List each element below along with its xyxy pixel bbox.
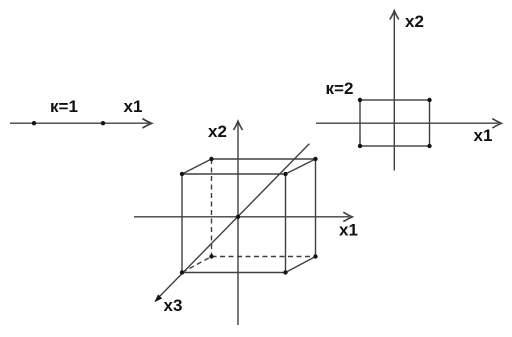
wire x2 axis vertical (cube): [237, 124, 239, 326]
svg-text:x1: x1: [339, 221, 358, 240]
edge top-left depth A-E: [182, 159, 212, 174]
wire x3 axis diagonal (cube): [158, 144, 309, 298]
k=3 cube plot: [134, 121, 352, 325]
node cube corner G back-bottom-left: [209, 254, 213, 258]
edge front-bottom C-D: [182, 272, 286, 274]
svg-text:x3: x3: [164, 296, 183, 315]
wire x1 axis horizontal (cube): [134, 216, 350, 218]
cube hidden edges dashed: [182, 159, 316, 273]
svg-text:x1: x1: [474, 126, 493, 145]
k=2 coordinate plot: [316, 11, 501, 171]
svg-text:x2: x2: [208, 122, 227, 141]
node cube corner F back-top-right: [313, 157, 317, 161]
x1 axis arrowhead (k=2): [492, 119, 501, 128]
edge top-right depth B-F: [286, 159, 316, 174]
svg-text:x2: x2: [405, 12, 424, 31]
node cube corner B front-top-right: [283, 172, 287, 176]
edge back-right F-H: [315, 159, 317, 257]
edge back-bottom G-H dashed: [212, 256, 316, 258]
edge back-top E-F: [212, 158, 316, 160]
node cube corner A front-top-left: [180, 172, 184, 176]
cube edges solid: [182, 159, 316, 273]
edge back-left E-G dashed: [211, 159, 213, 257]
node corner bottom-right (k=2 square): [427, 144, 431, 148]
node cube corner D front-bottom-right: [283, 270, 287, 274]
node cube corner E back-top-left: [209, 157, 213, 161]
edge front-top A-B: [182, 173, 286, 175]
x1 axis arrowhead (cube): [343, 212, 352, 221]
node cube corner C front-bottom-left: [180, 270, 184, 274]
square region k=2: [360, 100, 430, 146]
wire x1 axis horizontal (k=2): [316, 122, 499, 124]
edge bottom-right depth D-H: [286, 257, 316, 273]
node cube corner H back-bottom-right: [313, 254, 317, 258]
node corner bottom-left (k=2 square): [358, 144, 362, 148]
k1 axis arrowhead: [143, 119, 152, 128]
node corner top-left (k=2 square): [358, 98, 362, 102]
k=1 number line: [10, 119, 152, 128]
x3 axis arrowhead (filled): [154, 294, 162, 302]
node point at x=34 on k1 line: [32, 121, 36, 125]
node corner top-right (k=2 square): [427, 98, 431, 102]
wire k1 axis line: [10, 122, 149, 124]
svg-text:к=2: к=2: [326, 79, 354, 98]
node point at x=103 on k1 line: [101, 121, 105, 125]
edge bottom-left depth C-G dashed: [182, 257, 212, 273]
wire x2 axis vertical (k=2): [393, 13, 395, 171]
edge front-right B-D: [285, 174, 287, 273]
x2 axis arrowhead (cube): [234, 121, 243, 130]
node origin (cube axes): [236, 215, 240, 219]
x2 axis arrowhead (k=2): [390, 11, 399, 20]
svg-text:к=1: к=1: [50, 97, 78, 116]
edge front-left A-C: [181, 174, 183, 273]
svg-text:x1: x1: [124, 97, 143, 116]
